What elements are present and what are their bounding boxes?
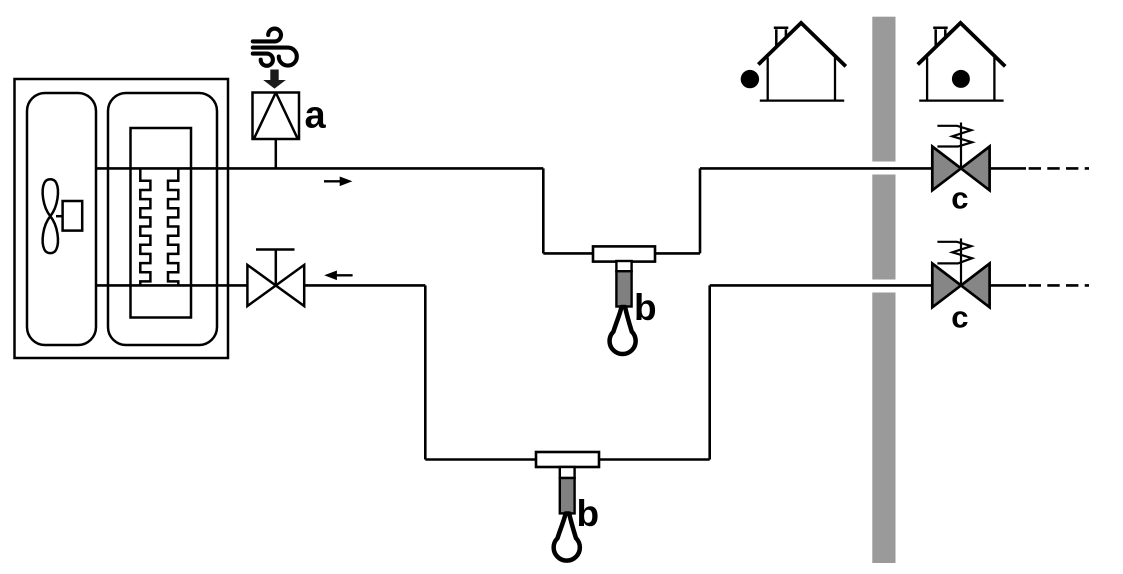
fan compartment xyxy=(27,93,96,345)
air arrow into device a xyxy=(263,70,286,89)
HX right comb xyxy=(168,168,178,286)
outdoor unit enclosure xyxy=(15,79,229,358)
wire return U left leg xyxy=(424,285,427,459)
wire return pipe to valve c2 xyxy=(710,284,933,287)
wire return U bottom left xyxy=(425,458,536,461)
heat exchanger HX inner box xyxy=(131,128,192,318)
wind icon (exhaust air) xyxy=(253,29,297,66)
wall lower segment xyxy=(872,293,895,564)
wire supply pipe after valve c1 xyxy=(989,167,1026,170)
flow arrow left (return) xyxy=(324,271,352,281)
flow arrow right (supply) xyxy=(324,177,352,187)
wire return pipe after valve c2 xyxy=(989,284,1026,287)
wire return U bottom right xyxy=(599,458,710,461)
wire supply U bottom right xyxy=(655,252,701,255)
wire return U right leg xyxy=(708,285,711,459)
sensor b2 neck xyxy=(560,467,575,478)
house indoor (right of wall) xyxy=(918,23,1006,101)
dot indoor unit marker xyxy=(952,70,970,88)
wire supply U bottom left xyxy=(543,252,594,255)
wire supply pipe to valve c1 xyxy=(700,167,933,170)
dot outdoor unit marker xyxy=(741,70,759,88)
svg-text:b: b xyxy=(577,493,600,534)
svg-text:a: a xyxy=(305,95,327,137)
wire supply U right leg xyxy=(699,168,702,253)
sensor b2 drop loop xyxy=(554,514,580,561)
wire return pipe from unit to valve xyxy=(96,284,248,287)
shut-off valve (manual) xyxy=(247,250,304,307)
sensor b1 rod xyxy=(616,271,631,306)
sensor pocket b2 tee xyxy=(536,452,599,467)
air vent device a xyxy=(253,93,300,140)
valve c1 (thermostatic) xyxy=(932,123,989,191)
svg-text:b: b xyxy=(634,287,657,328)
valve c2 (thermostatic) xyxy=(932,238,989,307)
stem of device a xyxy=(275,139,278,168)
wire return pipe valve to corner xyxy=(304,284,425,287)
HX left comb xyxy=(140,168,150,286)
fan propeller xyxy=(43,179,58,253)
fan motor xyxy=(63,201,83,231)
wire supply pipe from unit to U-dip xyxy=(96,167,543,170)
sensor pocket b1 tee xyxy=(593,246,655,261)
svg-text:c: c xyxy=(951,181,968,216)
fan motor link xyxy=(56,215,63,218)
wall upper segment xyxy=(872,17,895,162)
wire return pipe dashed continuation xyxy=(1029,284,1089,287)
house outdoor (left of wall) xyxy=(758,23,846,101)
sensor b1 drop loop xyxy=(610,307,636,354)
sensor b1 neck xyxy=(616,261,631,271)
wire supply pipe dashed continuation xyxy=(1029,167,1089,170)
heat exchanger compartment xyxy=(108,93,217,345)
sensor b2 rod xyxy=(560,478,575,513)
wire supply U left leg xyxy=(542,168,545,253)
wall middle segment xyxy=(872,175,895,280)
svg-text:c: c xyxy=(951,300,968,335)
